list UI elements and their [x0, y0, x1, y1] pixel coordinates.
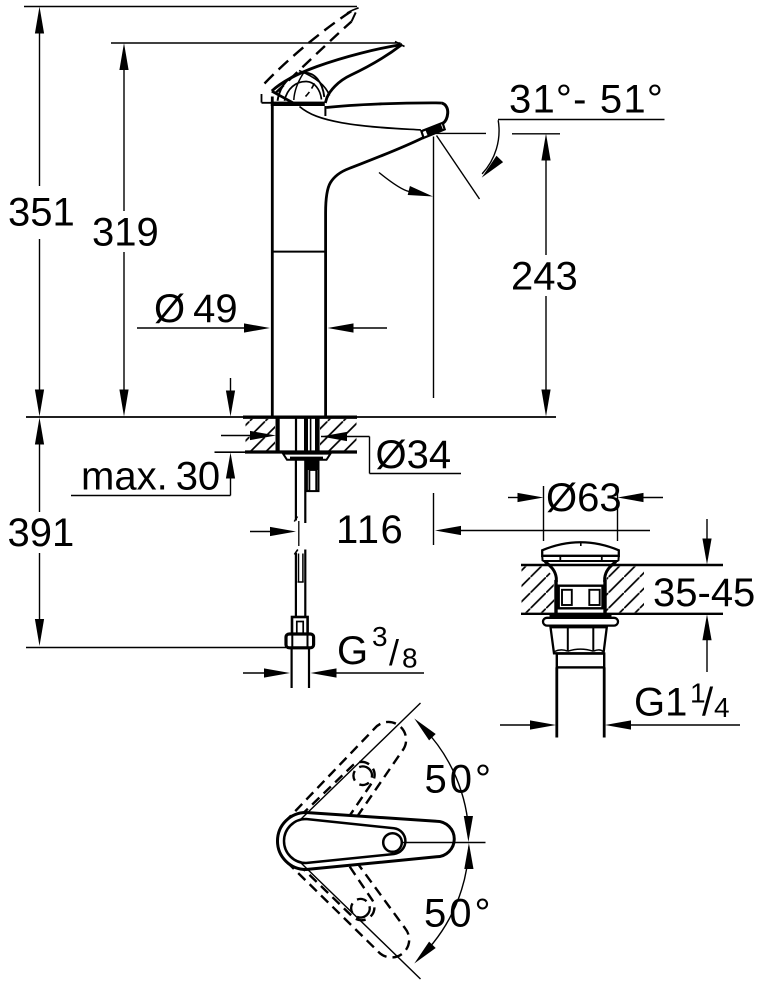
reference line at hose end (391 bottom) [26, 647, 286, 649]
riser right edge and spout underside [326, 138, 424, 417]
svg-text:116: 116 [336, 508, 404, 552]
svg-text:Ø63: Ø63 [546, 476, 622, 520]
lever back bottom edge [272, 91, 293, 103]
svg-text:50°: 50° [424, 892, 494, 936]
svg-text:Ø 49: Ø 49 [154, 287, 238, 331]
dashed raised lever tip [352, 8, 359, 22]
lever lower edge [325, 45, 402, 104]
drain counter hatching right [607, 567, 645, 613]
dimension line 319 [123, 69, 125, 392]
countertop bottom line [215, 451, 246, 453]
dimension O49 line right [354, 327, 388, 329]
cartridge dome outer arc [278, 73, 325, 101]
max30 dimension bottom arrow [230, 478, 232, 496]
extension line top (351 reference) [24, 6, 357, 8]
mounting flange under counter [283, 454, 331, 460]
O63 dimension arrows [508, 497, 519, 499]
dimension line 391 [39, 444, 41, 620]
dashed raised lever upper edge [265, 9, 356, 84]
drain counter hatching left [522, 567, 555, 613]
dimension 116 left arrow [250, 531, 271, 533]
G 3/8 threaded end [291, 648, 293, 688]
short shoulder at spout root [324, 106, 326, 116]
hole dimension arrow right / O34 leader [321, 436, 370, 438]
hex nut [551, 627, 607, 653]
collar below nut [557, 654, 604, 668]
faucet body left edge [271, 97, 274, 418]
top view: handle outer outline [278, 813, 455, 870]
flexible hose lower part [295, 553, 297, 617]
aerator [421, 123, 444, 138]
dashed lever tip travel marks [395, 42, 405, 47]
svg-text:243: 243 [511, 255, 578, 299]
31-51 angle underline [498, 119, 665, 121]
svg-text:max. 30: max. 30 [81, 455, 220, 499]
svg-text:35-45: 35-45 [653, 571, 755, 615]
top view: upper angle arc [423, 728, 469, 836]
lever upper edge [272, 45, 402, 92]
drain counter bottom line [521, 613, 723, 615]
faucet shank through counter [276, 418, 280, 451]
pop-up cap dome [542, 542, 619, 556]
top view: lower 50 deg diagonal [300, 862, 421, 979]
flexible hose upper part [295, 460, 297, 521]
pop-up body sides [554, 580, 557, 613]
max30 leader underline [71, 495, 231, 497]
drain threaded tube [555, 667, 558, 737]
hose break centre tick [298, 521, 300, 546]
top view: dashed handle rotated up 50 deg [266, 709, 423, 881]
lever swing arc with arrow [379, 173, 409, 192]
countertop hatching right [320, 419, 357, 451]
body/riser joint line [272, 251, 326, 253]
extension line below aerator [433, 137, 435, 399]
dimension O49 line left [137, 327, 245, 329]
spout right end [442, 103, 448, 123]
svg-text:8: 8 [402, 643, 418, 674]
top view: centreline [403, 842, 486, 844]
svg-text:50°: 50° [425, 758, 495, 802]
max30 dimension top arrow [230, 378, 232, 392]
spout front crease [300, 107, 421, 130]
top view: handle inner outline [284, 819, 405, 863]
svg-text:4: 4 [714, 692, 730, 723]
pop-up neck [545, 562, 557, 583]
top view: upper 50 deg diagonal [300, 703, 421, 820]
G 3/8 dimension arrows [243, 672, 265, 674]
svg-text:391: 391 [8, 511, 75, 555]
svg-text:G: G [337, 629, 368, 673]
washer [543, 618, 618, 626]
mounting stud [306, 459, 319, 471]
svg-text:/: / [389, 632, 399, 673]
dimension 116 right arrow [460, 530, 650, 532]
dimension line 351 [39, 32, 41, 392]
angle diagonal from aerator [437, 136, 480, 200]
lever inner crease [299, 71, 330, 96]
extension line (319 reference) [111, 42, 401, 44]
far-side lever neck line [294, 73, 304, 100]
pop-up body window [559, 586, 603, 609]
top view: dashed handle rotated down 50 deg [266, 801, 423, 973]
svg-text:319: 319 [92, 211, 159, 255]
top view: handle dot [383, 833, 402, 852]
body back ledge [262, 94, 272, 103]
G 1 1/4 dimension arrows [500, 724, 531, 726]
svg-text:3: 3 [372, 621, 388, 652]
countertop hatching left [246, 419, 276, 451]
countertop top line [26, 416, 243, 418]
svg-text:Ø34: Ø34 [376, 433, 452, 477]
svg-text:31°- 51°: 31°- 51° [509, 78, 664, 122]
G 3/8 nut [286, 634, 314, 648]
243 top reference line [436, 132, 486, 134]
dimension 243 line [545, 160, 547, 255]
lever base dark bar [271, 102, 325, 106]
dashed lever mid travel arc [306, 80, 316, 97]
35-45 dimension arrows [706, 519, 708, 540]
hose connector block [292, 617, 308, 634]
spout top edge [326, 103, 442, 108]
hole dimension arrow left [221, 435, 251, 437]
drain counter top line [521, 564, 723, 566]
svg-text:351: 351 [8, 191, 75, 235]
cartridge dome inner arc [285, 81, 322, 100]
top view: lower angle arc [423, 847, 469, 955]
seal bar under counter [550, 614, 612, 618]
dashed raised lever lower edge [275, 22, 352, 94]
svg-text:G1: G1 [634, 681, 687, 725]
O63 extension lines [543, 486, 545, 541]
31-51 angle arc with arrow [482, 120, 499, 174]
svg-text:/: / [702, 681, 714, 725]
